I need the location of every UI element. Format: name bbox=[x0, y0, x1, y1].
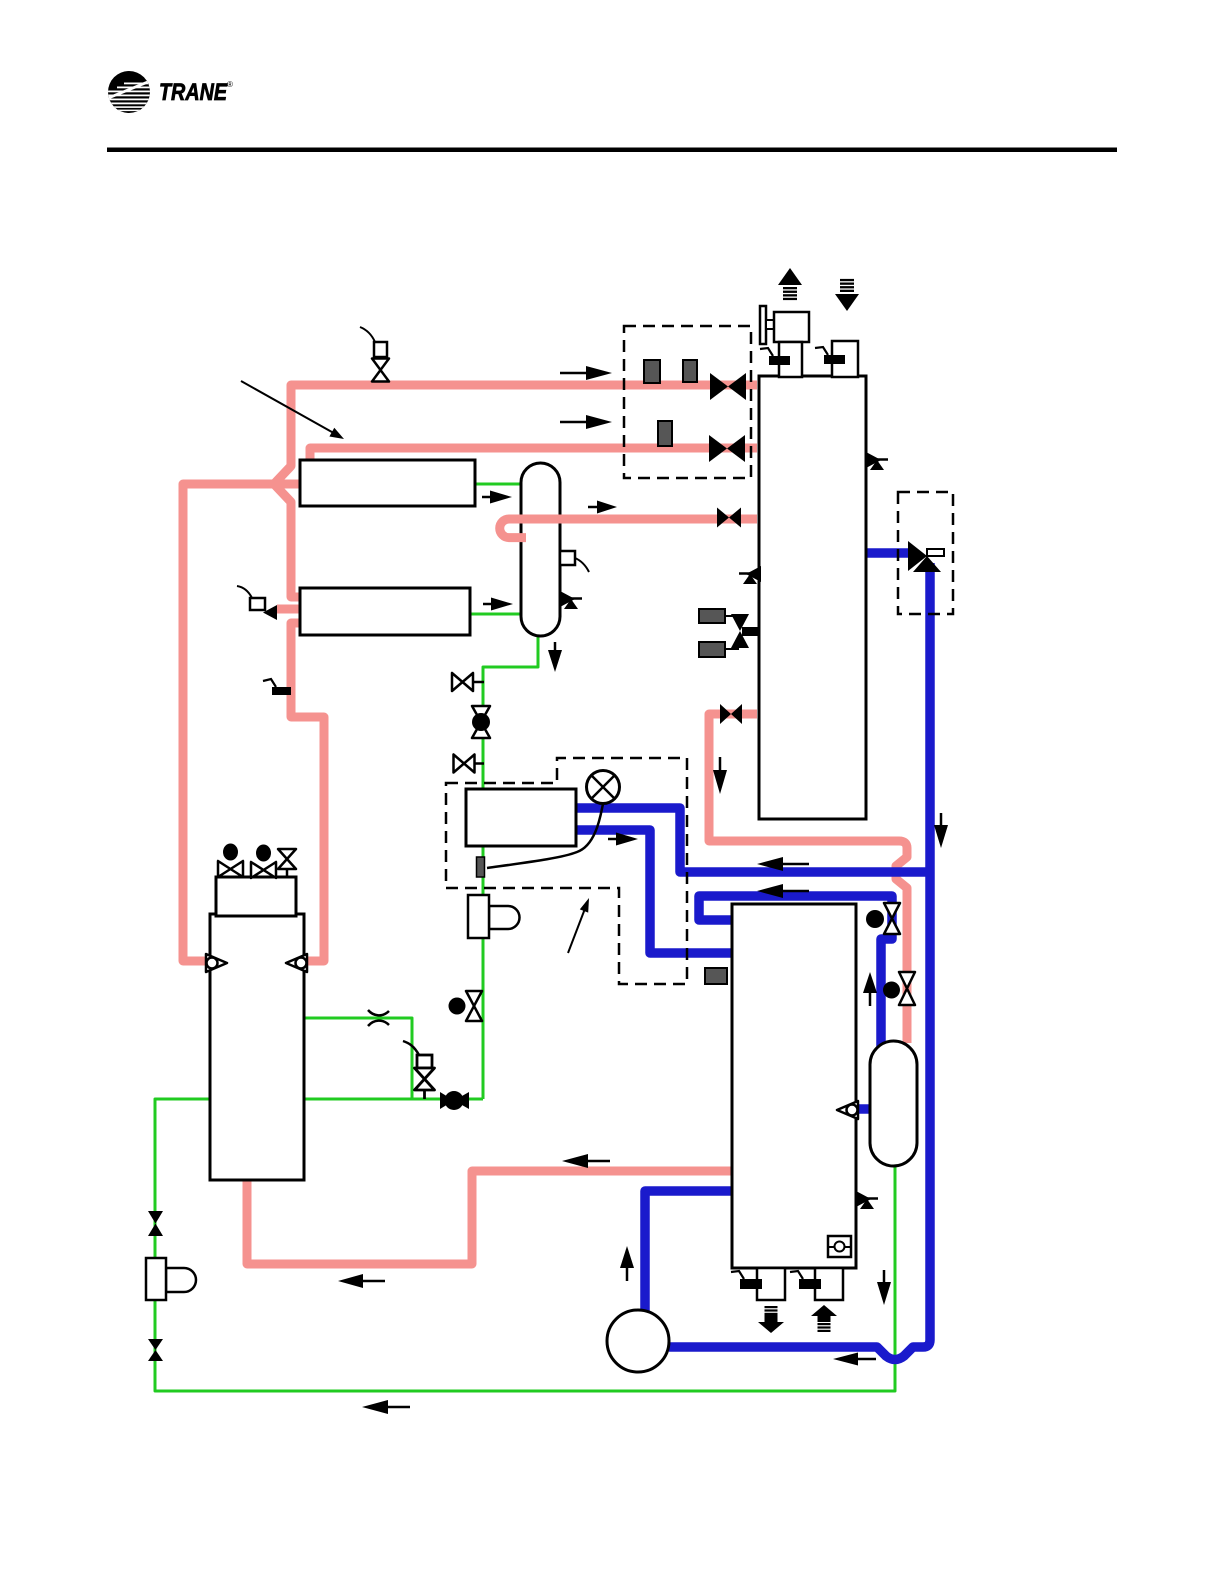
svg-text:TRANE: TRANE bbox=[159, 79, 228, 106]
svg-text:®: ® bbox=[227, 80, 233, 89]
